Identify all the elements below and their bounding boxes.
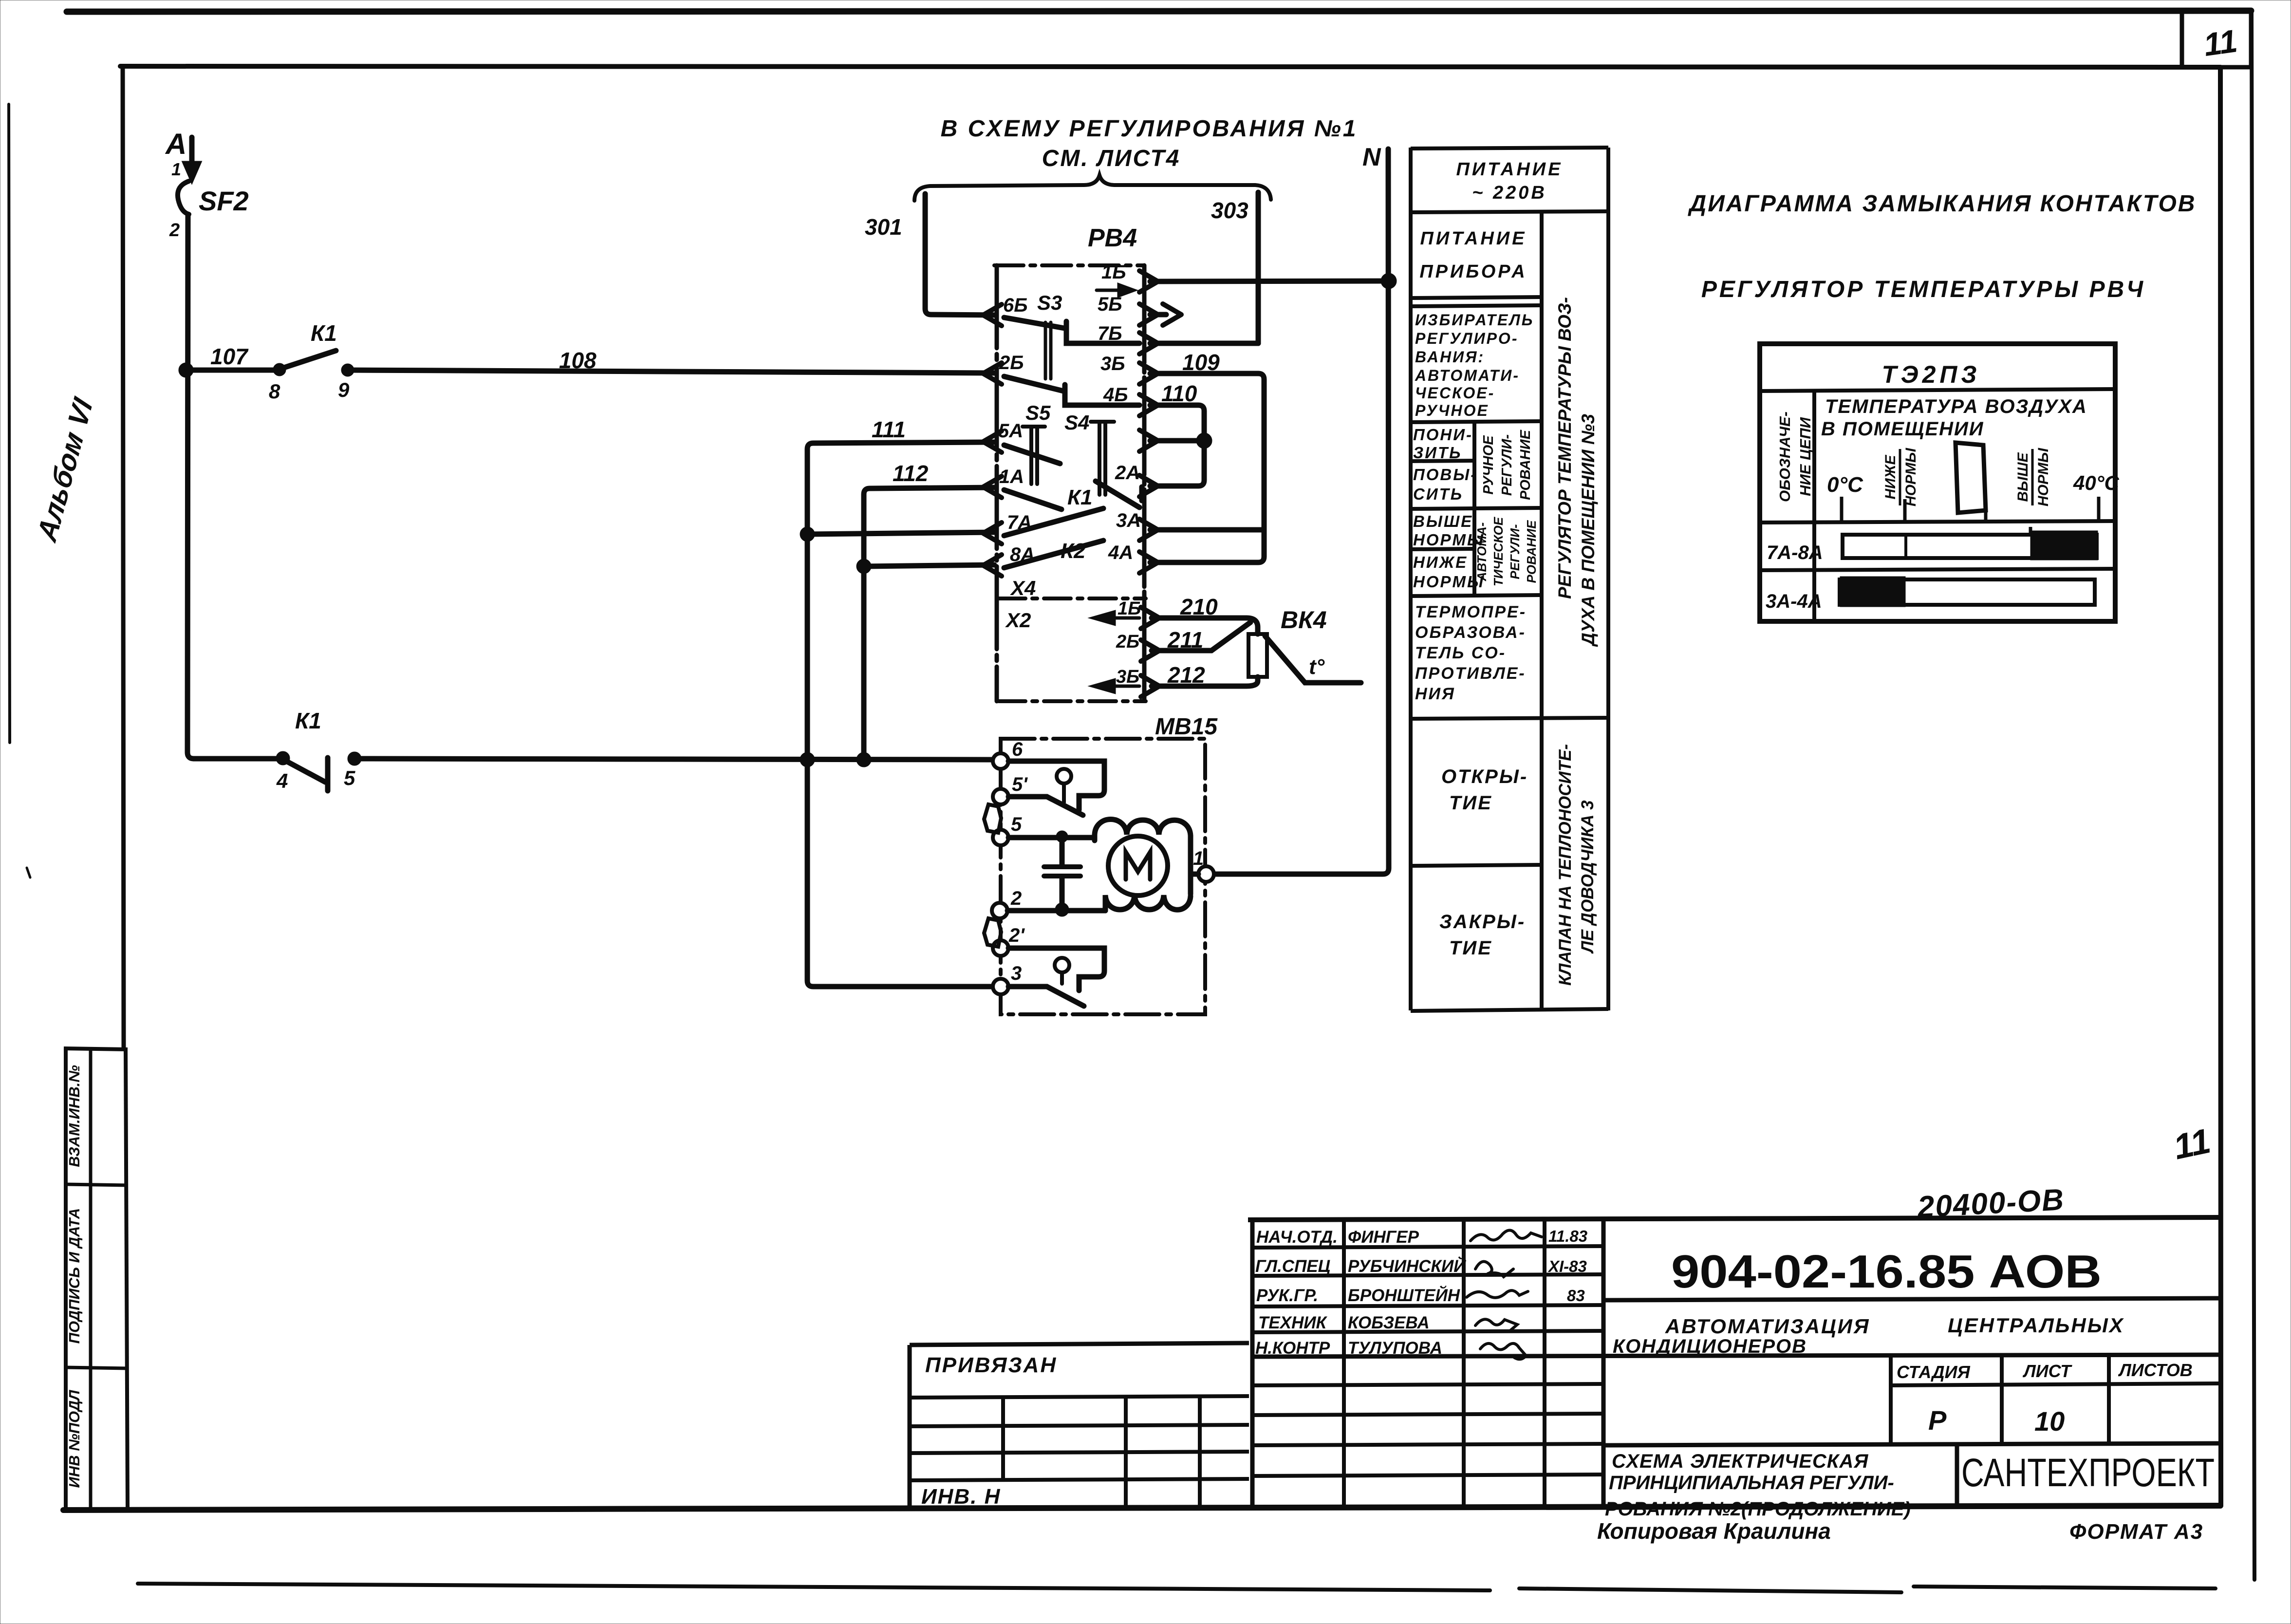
svg-text:2: 2 (1010, 888, 1022, 909)
svg-text:ИНВ. Н: ИНВ. Н (921, 1485, 1001, 1509)
wire 1B to N (1150, 281, 1389, 281)
svg-text:РОВАНИЯ №2(ПРОДОЛЖЕНИЕ): РОВАНИЯ №2(ПРОДОЛЖЕНИЕ) (1605, 1498, 1911, 1520)
svg-text:2А: 2А (1115, 462, 1140, 484)
svg-text:5А: 5А (998, 420, 1023, 442)
wire N vertical (1213, 149, 1389, 874)
svg-text:НОРМЫ: НОРМЫ (1903, 448, 1919, 506)
blade S4 to 2A (1096, 481, 1142, 507)
terminal 2 (992, 903, 1007, 918)
connector pin 4A on right rail (1139, 552, 1158, 573)
outer bottom page edge line (138, 1584, 1490, 1590)
wire terminal 5 to winding (1008, 835, 1095, 840)
junction node on motor feed wire (802, 755, 812, 765)
pushbutton S5 symbol (1023, 427, 1045, 484)
wire 8A branch (864, 565, 994, 566)
upper limit switch fixed contact (1008, 761, 1104, 810)
wire winding to terminal 1 (1191, 872, 1198, 877)
svg-text:НОРМЫ: НОРМЫ (1413, 573, 1485, 591)
svg-text:АВТОМА-: АВТОМА- (1474, 523, 1489, 582)
svg-text:109: 109 (1182, 350, 1220, 375)
svg-text:1Б: 1Б (1118, 598, 1141, 619)
svg-text:Р: Р (1928, 1405, 1947, 1436)
wire 301 (925, 194, 994, 315)
lower limit switch blade (1008, 987, 1084, 1006)
svg-text:108: 108 (559, 348, 596, 373)
scale label Ниже нормы (1882, 448, 1919, 506)
svg-text:3: 3 (1011, 963, 1022, 984)
junction node on riser 112 at motor wire (859, 755, 869, 765)
terminal 5' (993, 789, 1008, 804)
svg-text:ТЕХНИК: ТЕХНИК (1258, 1313, 1328, 1332)
TE2P3 row line 1 (1760, 521, 2115, 523)
rotated cell Регулятор температуры воздуха в помещении №3 (1555, 297, 1598, 647)
connector pin 3B on right rail (1139, 363, 1158, 384)
svg-text:ФОРМАТ А3: ФОРМАТ А3 (2069, 1520, 2203, 1544)
svg-text:ЛЕ ДОВОДЧИКА 3: ЛЕ ДОВОДЧИКА 3 (1578, 800, 1597, 954)
inner frame left border (123, 66, 124, 1048)
svg-text:РУЧНОЕ: РУЧНОЕ (1415, 402, 1489, 419)
terminal 6 (993, 753, 1008, 769)
signature squiggles (1467, 1230, 1542, 1359)
svg-text:СТАДИЯ: СТАДИЯ (1897, 1362, 1970, 1382)
svg-text:83: 83 (1567, 1287, 1585, 1305)
svg-text:ИЗБИРАТЕЛЬ: ИЗБИРАТЕЛЬ (1415, 311, 1534, 329)
svg-text:2Б: 2Б (1116, 632, 1139, 652)
jumper link 5'-5 (984, 804, 1001, 833)
pushbutton S4 symbol (1091, 422, 1114, 495)
svg-text:ЦЕНТРАЛЬНЫХ: ЦЕНТРАЛЬНЫХ (1948, 1314, 2124, 1337)
contact K1 upper: terminal 8 (276, 366, 283, 373)
terminal 2' (993, 940, 1008, 956)
svg-text:ЛИСТОВ: ЛИСТОВ (2118, 1360, 2193, 1380)
svg-text:107: 107 (210, 344, 249, 369)
svg-text:РУЧНОЕ: РУЧНОЕ (1481, 435, 1496, 495)
selector S3 linkage double line (1045, 322, 1051, 379)
svg-text:АВТОМАТИЗАЦИЯ: АВТОМАТИЗАЦИЯ (1665, 1315, 1870, 1338)
wire 7B to 303 (1150, 341, 1258, 346)
svg-text:S3: S3 (1037, 291, 1062, 314)
wire riser down to motor terminal 3 (807, 760, 993, 987)
svg-text:ПИТАНИЕ: ПИТАНИЕ (1456, 159, 1563, 180)
svg-text:ПРИБОРА: ПРИБОРА (1419, 261, 1527, 282)
svg-text:ОТКРЫ-: ОТКРЫ- (1441, 766, 1528, 787)
svg-text:БРОНШТЕЙН: БРОНШТЕЙН (1348, 1285, 1460, 1305)
svg-text:112: 112 (893, 461, 929, 486)
signature rows text (1255, 1227, 1587, 1358)
svg-text:ПРОТИВЛЕ-: ПРОТИВЛЕ- (1415, 664, 1526, 683)
svg-text:ОБРАЗОВА-: ОБРАЗОВА- (1415, 623, 1526, 642)
svg-text:ПОВЫ-: ПОВЫ- (1413, 466, 1477, 484)
svg-text:В СХЕМУ РЕГУЛИРОВАНИЯ №1: В СХЕМУ РЕГУЛИРОВАНИЯ №1 (941, 116, 1358, 142)
contact K1 lower: terminal 4 (194, 756, 282, 762)
contact K1 lower blade (285, 758, 328, 791)
rotated cell Клапан на теплоносителе доводчика 3 (1556, 744, 1597, 986)
direction arrow at 1B (1097, 285, 1134, 296)
svg-text:РЕГУЛИ-: РЕГУЛИ- (1508, 524, 1522, 579)
sheet number box top right (2182, 12, 2251, 67)
svg-text:Копировая Краилина: Копировая Краилина (1597, 1518, 1831, 1544)
wire 7A branch (807, 532, 994, 534)
connector pin 4B on right rail (1139, 394, 1158, 416)
svg-text:ТИЕ: ТИЕ (1449, 937, 1492, 959)
svg-text:ГЛ.СПЕЦ: ГЛ.СПЕЦ (1255, 1257, 1330, 1276)
TE2P3 header line (1760, 389, 2115, 391)
wire 108 (348, 370, 994, 373)
outer top border line (67, 11, 2251, 12)
wire 107 (187, 368, 279, 373)
svg-text:1: 1 (171, 159, 181, 179)
motor M1 winding lower (1105, 895, 1191, 911)
junction node on riser for 8A (859, 561, 869, 571)
connector pin 3A on right rail (1139, 519, 1158, 541)
capacitor C (1059, 833, 1065, 840)
TE2P3 row line 2 (1760, 569, 2115, 570)
svg-text:РЕГУЛЯТОР ТЕМПЕРАТУРЫ РВЧ: РЕГУЛЯТОР ТЕМПЕРАТУРЫ РВЧ (1701, 277, 2145, 302)
svg-text:К1: К1 (295, 708, 321, 733)
empty grid rows (1252, 1384, 1603, 1385)
svg-text:СХЕМА ЭЛЕКТРИЧЕСКАЯ: СХЕМА ЭЛЕКТРИЧЕСКАЯ (1612, 1451, 1868, 1472)
connector pin 1B on right rail (1139, 271, 1158, 292)
left stamp boxes (Взам.инв / Подпись / Инв.подл) (64, 1048, 68, 1509)
svg-text:111: 111 (872, 417, 906, 442)
blade 5A (1004, 445, 1060, 464)
svg-text:АВТОМАТИ-: АВТОМАТИ- (1415, 367, 1520, 384)
PB4 box top dash-dot edge (994, 263, 1144, 267)
svg-text:ТЕРМОПРЕ-: ТЕРМОПРЕ- (1415, 603, 1527, 621)
wire 6A to 110 loop (1150, 438, 1204, 444)
stage/sheet header row line (1891, 1383, 2220, 1385)
svg-text:ЧЕСКОЕ-: ЧЕСКОЕ- (1415, 384, 1495, 402)
function table frame (1409, 148, 1413, 1010)
svg-text:САНТЕХПРОЕКТ: САНТЕХПРОЕКТ (1961, 1451, 2215, 1495)
svg-text:4А: 4А (1108, 542, 1133, 563)
incoming wire arrow X2-1B (1094, 612, 1139, 624)
blade K2 8A-4A (1004, 541, 1103, 568)
svg-text:КОНДИЦИОНЕРОВ: КОНДИЦИОНЕРОВ (1613, 1336, 1807, 1357)
svg-text:ВЗАМ.ИНВ.№: ВЗАМ.ИНВ.№ (66, 1065, 83, 1167)
svg-text:1А: 1А (999, 466, 1024, 487)
svg-text:XI-83: XI-83 (1547, 1257, 1587, 1275)
svg-text:3А-4А: 3А-4А (1766, 591, 1822, 612)
svg-text:X2: X2 (1005, 609, 1031, 632)
svg-text:ЗИТЬ: ЗИТЬ (1413, 444, 1462, 462)
svg-text:3Б: 3Б (1116, 667, 1139, 687)
connector pin 2B on left rail (983, 363, 1002, 384)
upper limit switch plunger (1057, 769, 1071, 784)
svg-text:СМ. ЛИСТ4: СМ. ЛИСТ4 (1042, 146, 1181, 171)
connector pin 5A on left rail (983, 431, 1002, 452)
description row top (1603, 1443, 2220, 1445)
svg-text:~ 220В: ~ 220В (1472, 183, 1547, 203)
connector pin 2A on right rail (1139, 475, 1158, 497)
svg-text:К1: К1 (311, 320, 337, 346)
circuit breaker SF2 (178, 181, 189, 214)
motor M letter (1126, 852, 1150, 879)
svg-text:ЛИСТ: ЛИСТ (2022, 1361, 2072, 1381)
upper limit switch blade (1008, 797, 1083, 815)
TE2P3 table outer box (1760, 344, 2115, 621)
svg-text:Н.КОНТР: Н.КОНТР (1255, 1339, 1330, 1358)
svg-text:ДИАГРАММА ЗАМЫКАНИЯ КОНТАК: ДИАГРАММА ЗАМЫКАНИЯ КОНТАКТОВ (1688, 191, 2197, 217)
connector pin 6A on right rail (1139, 430, 1158, 451)
svg-text:303: 303 (1211, 198, 1248, 223)
PB4 left rail (995, 265, 999, 701)
svg-text:МВ15: МВ15 (1155, 714, 1218, 740)
signature table rows (1252, 1246, 1603, 1248)
wire 303 (1256, 192, 1261, 343)
TE2P3 left col divider (1812, 390, 1816, 621)
jumper link 2-2' (984, 918, 1001, 947)
signature table verticals (1250, 1220, 1255, 1508)
svg-text:ВАНИЯ:: ВАНИЯ: (1415, 348, 1485, 366)
svg-text:S4: S4 (1064, 411, 1089, 434)
svg-text:S5: S5 (1025, 401, 1051, 424)
wire 210 (1152, 618, 1258, 634)
svg-text:РУБЧИНСКИЙ: РУБЧИНСКИЙ (1348, 1256, 1466, 1276)
svg-text:2: 2 (169, 220, 180, 241)
PB4 right rail (1142, 265, 1147, 701)
svg-text:ОБОЗНАЧЕ-: ОБОЗНАЧЕ- (1776, 411, 1793, 502)
svg-text:ДУХА В ПОМЕЩЕНИИ №3: ДУХА В ПОМЕЩЕНИИ №3 (1578, 414, 1598, 647)
svg-text:4Б: 4Б (1103, 384, 1128, 406)
connector pin 1A on left rail (983, 476, 1002, 498)
svg-text:РОВАНИЕ: РОВАНИЕ (1524, 520, 1539, 583)
outer bottom page edge line right part (1519, 1587, 2216, 1592)
terminal 1 (1198, 866, 1214, 882)
svg-text:7Б: 7Б (1098, 323, 1122, 344)
thermistor t-dependence stroke (1265, 636, 1361, 683)
connector pin X2-3B (1141, 675, 1159, 697)
wire from K1 lower to motor terminal 6 (354, 759, 993, 760)
wire 110 loop (1150, 405, 1204, 486)
svg-text:ВЫШЕ: ВЫШЕ (2015, 452, 2031, 502)
svg-text:2': 2' (1008, 925, 1025, 946)
svg-text:СИТЬ: СИТЬ (1413, 485, 1463, 503)
Privyazan box (910, 1343, 1249, 1345)
svg-text:6: 6 (1012, 739, 1023, 760)
inner frame bottom border (63, 1506, 2220, 1510)
svg-text:ИНВ №ПОДЛ: ИНВ №ПОДЛ (66, 1390, 83, 1488)
svg-text:НОРМЫ: НОРМЫ (2035, 448, 2051, 506)
svg-text:211: 211 (1167, 627, 1203, 653)
svg-text:ФИНГЕР: ФИНГЕР (1348, 1228, 1419, 1247)
svg-text:РОВАНИЕ: РОВАНИЕ (1518, 429, 1533, 500)
svg-text:КОБЗЕВА: КОБЗЕВА (1348, 1313, 1430, 1332)
svg-text:40°С: 40°С (2073, 471, 2120, 494)
svg-text:РЕГУЛЯТОР ТЕМПЕРАТУРЫ ВОЗ-: РЕГУЛЯТОР ТЕМПЕРАТУРЫ ВОЗ- (1555, 297, 1575, 599)
motor M1 circle (1108, 836, 1168, 896)
svg-text:А: А (165, 128, 186, 160)
svg-text:2Б: 2Б (999, 352, 1024, 373)
setpoint parallelogram (1956, 443, 1986, 513)
X2 bottom dash-dot (999, 699, 1146, 703)
svg-text:ПРИВЯЗАН: ПРИВЯЗАН (925, 1353, 1057, 1377)
svg-text:7А-8А: 7А-8А (1767, 542, 1823, 563)
svg-text:ЗАКРЫ-: ЗАКРЫ- (1439, 911, 1526, 933)
rotated label Обозначение цепи (1776, 411, 1814, 502)
svg-text:НИЖЕ: НИЖЕ (1882, 454, 1899, 499)
wire phase vertical from SF2 down (187, 214, 194, 759)
contact K1 lower: terminal 5 (350, 754, 359, 763)
incoming wire arrow X2-3B (1094, 680, 1139, 692)
svg-text:НИЖЕ: НИЖЕ (1413, 553, 1468, 571)
brace see sheet 4 (914, 175, 1271, 201)
wire 109 loop (1150, 373, 1264, 562)
connector pin 7A on left rail (983, 523, 1002, 544)
connector pin 7B on right rail (1139, 333, 1158, 354)
thermistor BK4 body (1248, 634, 1267, 677)
inner frame right border (2220, 67, 2221, 1506)
junction node on N (1383, 276, 1394, 286)
terminal 5 (993, 830, 1008, 845)
svg-text:ТЕЛЬ СО-: ТЕЛЬ СО- (1415, 644, 1506, 662)
outer right page border (2252, 12, 2254, 1580)
junction node on riser for 7A (802, 529, 812, 539)
svg-text:ПИТАНИЕ: ПИТАНИЕ (1420, 228, 1527, 249)
svg-text:10: 10 (2034, 1406, 2065, 1437)
wire branch 111 vertical riser (807, 442, 994, 760)
connector pin X2-2B (1141, 640, 1159, 661)
svg-text:SF2: SF2 (199, 186, 249, 216)
svg-text:ТУЛУПОВА: ТУЛУПОВА (1348, 1339, 1442, 1358)
connector pin X2-1B (1141, 607, 1159, 629)
full width divider (1252, 1355, 2220, 1357)
junction node on 110 loop (1199, 435, 1210, 446)
svg-text:N: N (1362, 143, 1381, 171)
svg-text:X4: X4 (1010, 577, 1036, 599)
selector blade 2B-4B (1004, 376, 1139, 405)
svg-text:ВЫШЕ: ВЫШЕ (1413, 512, 1473, 530)
wire 212 (1152, 677, 1258, 686)
svg-text:ПРИНЦИПИАЛЬНАЯ РЕГУЛИ-: ПРИНЦИПИАЛЬНАЯ РЕГУЛИ- (1609, 1472, 1894, 1493)
junction node at wire 107 (181, 365, 191, 375)
svg-text:5': 5' (1012, 774, 1028, 795)
connector pin 8A on left rail (983, 555, 1002, 576)
svg-text:ТЕМПЕРАТУРА ВОЗДУХА: ТЕМПЕРАТУРА ВОЗДУХА (1825, 396, 2087, 417)
svg-text:11.83: 11.83 (1548, 1227, 1587, 1245)
contact bar 3A-4A (1840, 579, 2095, 605)
svg-text:t°: t° (1309, 655, 1325, 679)
svg-text:0°С: 0°С (1827, 473, 1863, 497)
left paper edge line (9, 104, 10, 743)
lower limit switch fixed contact (1008, 948, 1104, 990)
doc number cell bottom (1603, 1298, 2220, 1300)
svg-text:РЕГУЛИРО-: РЕГУЛИРО- (1415, 330, 1518, 347)
contact K1 upper blade (282, 351, 336, 368)
svg-text:ПОНИ-: ПОНИ- (1413, 426, 1473, 444)
scale label Выше нормы (2015, 448, 2051, 506)
svg-text:11: 11 (2201, 22, 2239, 63)
rotated cell Ручное регулирование (1481, 429, 1533, 500)
svg-text:8: 8 (269, 380, 280, 403)
svg-text:В ПОМЕЩЕНИИ: В ПОМЕЩЕНИИ (1821, 418, 1984, 440)
phase arrow at A (186, 137, 198, 178)
MB15 dash-dot enclosure (1001, 739, 1205, 1014)
svg-text:ТИЕ: ТИЕ (1449, 792, 1492, 814)
svg-text:НАЧ.ОТД.: НАЧ.ОТД. (1256, 1228, 1338, 1247)
svg-text:5: 5 (344, 766, 355, 789)
svg-text:РЕГУЛИ-: РЕГУЛИ- (1499, 434, 1515, 496)
svg-text:К1: К1 (1067, 485, 1093, 509)
svg-text:РУК.ГР.: РУК.ГР. (1256, 1286, 1318, 1305)
stage/sheet header verticals (1889, 1356, 1893, 1444)
rotated cell Автоматическое регулирование (1474, 517, 1539, 586)
blade 1A (1004, 490, 1062, 509)
svg-text:РВ4: РВ4 (1088, 224, 1137, 252)
svg-text:НИЕ ЦЕПИ: НИЕ ЦЕПИ (1797, 417, 1814, 496)
svg-text:904-02-16.85 АОВ: 904-02-16.85 АОВ (1671, 1246, 2102, 1298)
svg-text:НОРМЫ: НОРМЫ (1413, 531, 1485, 549)
svg-text:3А: 3А (1116, 510, 1141, 531)
terminal 3 (993, 979, 1008, 994)
connector pin 5B on right rail (1139, 304, 1158, 325)
svg-text:НИЯ: НИЯ (1415, 685, 1455, 703)
blade K1 7A-3A (1004, 508, 1103, 536)
svg-text:9: 9 (338, 378, 350, 401)
selector S3 blade (1004, 317, 1139, 343)
svg-text:1: 1 (1193, 848, 1204, 869)
svg-text:6Б: 6Б (1003, 295, 1028, 316)
contact bar 7A-8A (1843, 535, 2097, 558)
X4 boundary dash-dot (999, 597, 1146, 600)
svg-text:110: 110 (1161, 381, 1197, 406)
motor M1 winding upper (1095, 820, 1191, 895)
svg-text:5: 5 (1011, 814, 1022, 835)
svg-text:3Б: 3Б (1100, 353, 1125, 374)
lower limit switch plunger (1055, 958, 1069, 972)
org cell divider (1955, 1444, 1959, 1507)
contact K1 upper: terminal 9 (344, 366, 352, 374)
wire stub 5B (1150, 312, 1166, 317)
svg-text:ВК4: ВК4 (1281, 606, 1327, 634)
svg-text:КЛАПАН НА ТЕПЛОНОСИТЕ-: КЛАПАН НА ТЕПЛОНОСИТЕ- (1556, 744, 1575, 986)
svg-text:212: 212 (1167, 662, 1205, 688)
wire branch 112 vertical riser (864, 487, 994, 760)
wire terminal 2 to winding (1007, 908, 1105, 914)
wire 211 (1152, 622, 1250, 651)
inner frame top border (120, 66, 2220, 67)
connector pin 6B on left rail (983, 304, 1002, 326)
svg-text:4: 4 (276, 769, 288, 792)
wire 3A to riser (1150, 527, 1264, 533)
svg-text:210: 210 (1180, 594, 1218, 619)
svg-text:301: 301 (865, 214, 902, 240)
svg-text:ТИЧЕСКОЕ: ТИЧЕСКОЕ (1491, 517, 1506, 586)
svg-text:ПОДПИСЬ И ДАТА: ПОДПИСЬ И ДАТА (66, 1208, 83, 1344)
title block top edge (1248, 1217, 2220, 1220)
svg-text:ТЭ2ПЗ: ТЭ2ПЗ (1882, 361, 1981, 388)
svg-text:5Б: 5Б (1098, 294, 1122, 315)
stray mark left (27, 868, 30, 877)
svg-text:1Б: 1Б (1101, 261, 1126, 283)
